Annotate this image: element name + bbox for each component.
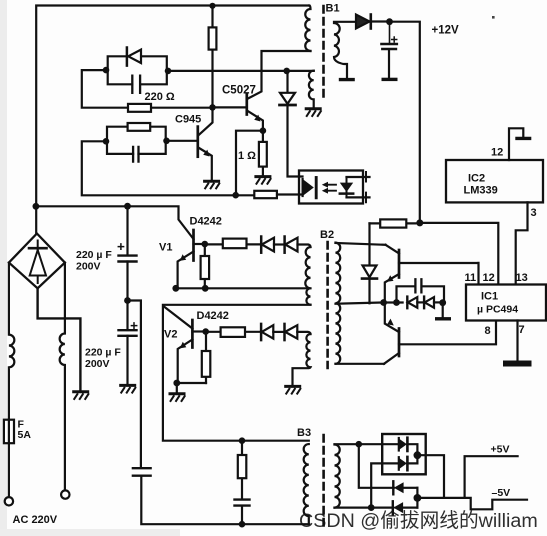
transformer B2 right winding (x=335.5 y242.6-364) <box>336 243 341 364</box>
node: B3 feed / RC tap <box>239 437 246 444</box>
node: clamp network right <box>439 299 446 306</box>
wire + inductor L1 on AC line 1 <box>9 263 14 420</box>
transistor V1: emitter with arrow <box>178 252 194 289</box>
diode D-o2 (+5V, points right) <box>398 457 400 470</box>
diode D-v1b (points left) <box>283 237 286 253</box>
svg-text:B2: B2 <box>320 229 334 241</box>
wire: startup resistor drop line <box>211 6 213 108</box>
wire: +12V rail across and down <box>390 22 420 223</box>
svg-text:200V: 200V <box>76 261 101 273</box>
transistor V1: base lead <box>194 243 205 245</box>
diode D-c1 (points left) <box>406 297 408 309</box>
transistor V1: base bar <box>192 230 195 261</box>
svg-text:220 µ F: 220 µ F <box>76 249 112 261</box>
diode D-osc1 in upper loop (points left) <box>126 48 129 66</box>
ground: bridge negative <box>72 392 89 400</box>
resistor V1 base-emitter <box>204 244 206 288</box>
diode D-v2b (points left) <box>283 324 286 340</box>
stray mark top right <box>492 16 495 19</box>
paper edge tint bottom-left <box>0 529 180 536</box>
wire: B3 secondary bottom lead <box>335 507 394 509</box>
capacitor 220uF-2 (electrolytic) <box>126 301 128 331</box>
diode D-rect12 (to +12V, points right) <box>356 15 370 29</box>
transformer B1 core (dashed) <box>322 6 325 97</box>
capacitor C-osc2 in lower loop <box>133 147 138 162</box>
node: left rail / B+ wire junction <box>33 203 40 210</box>
wire: +12V to IC1 pin 12 <box>420 223 499 284</box>
bridge inner diode symbol <box>37 241 39 284</box>
wire + inductor L2 on AC line 2 <box>60 263 65 491</box>
diode D-o4 (-5V, points left) <box>392 501 394 514</box>
diode D-opto-feed (points down) <box>286 71 288 93</box>
transformer B2 upper-left winding (x=310.5 y247-304.7) <box>305 247 310 305</box>
transistor Q2: emitter with arrow up to node <box>385 302 399 332</box>
transistor C5027: collector to B1 primary bottom <box>247 51 311 99</box>
lower RC loop frame <box>107 127 166 154</box>
transistor V2: collector diagonal <box>164 306 193 328</box>
resistor R-12V feed <box>370 222 420 224</box>
transformer B2 core (dashed) <box>326 242 329 368</box>
wire: Q2 base to IC1 pin 8 <box>399 321 496 345</box>
diode D-o1 (+5V, points right) <box>398 438 400 451</box>
node: between filter caps <box>124 297 131 304</box>
node: V1 base node <box>202 241 209 248</box>
optocoupler U-opto box <box>299 171 363 204</box>
wire: B2 right center tap <box>336 303 384 304</box>
rectifier box <box>382 434 426 474</box>
node: C5027 emitter node <box>260 127 267 134</box>
node: +12V rectifier output <box>386 18 393 25</box>
supply bar for IC2 pin 12 <box>515 137 531 139</box>
svg-text:C945: C945 <box>175 114 201 126</box>
wire: +5V rail <box>465 456 518 498</box>
wire: C5027 base <box>213 106 247 108</box>
svg-text:V2: V2 <box>164 329 177 341</box>
svg-text:IC1: IC1 <box>481 291 498 303</box>
wire: B+ branch to bottom area <box>128 301 141 468</box>
resistor V2 base-emitter <box>205 332 207 383</box>
wire: B2 right bottom lead to Q2 collector <box>336 363 385 365</box>
svg-text:AC 220V: AC 220V <box>13 514 58 526</box>
wire: +5V output through box <box>417 455 444 498</box>
svg-text:12: 12 <box>483 272 495 284</box>
IC2 pin 12 to supply bar <box>509 128 523 160</box>
ground: B1 feedback winding (bar) <box>339 79 355 81</box>
transformer B3 left winding (x=308.8 y446-518) <box>304 444 309 524</box>
resistor 220ohm (horizontal) <box>151 107 213 109</box>
wire: top tap down to D3 <box>359 444 394 488</box>
ground: V2 emitter <box>169 394 186 402</box>
transistor C945: base bar <box>196 127 199 157</box>
wire: Q1 base to IC1 pin 11 <box>399 263 479 285</box>
optocoupler output element (left, filled) <box>303 179 314 196</box>
optocoupler right leads with ticks <box>347 177 370 197</box>
capacitor C-12V filter (electrolytic) <box>389 22 391 44</box>
diode D-o3 (-5V, points left) <box>392 481 394 494</box>
transistor C945: emitter with arrow to ground <box>198 148 212 181</box>
svg-text:V1: V1 <box>159 242 172 254</box>
wire: V1 base chain <box>205 243 261 245</box>
transistor V2: emitter with arrow <box>178 340 193 384</box>
wire: lower RC network left lead + bracket down to feedback bottom wire <box>82 141 255 195</box>
ground: filter caps <box>119 385 136 393</box>
optocoupler light arrows <box>326 185 336 191</box>
transformer B1 feedback winding (right, x=334 y23-57) <box>334 22 356 78</box>
resistor on feedback bottom wire (to optocoupler) <box>277 193 303 195</box>
svg-text:LM339: LM339 <box>464 185 498 197</box>
resistor R-snub (vertical at B3) <box>241 441 243 500</box>
wire: feedback line y=71 from RC network to B1 lower winding <box>168 70 314 72</box>
node: left of lower RC network <box>103 138 110 145</box>
transistor C5027: emitter with arrow <box>247 111 263 131</box>
wire: V2 base chain <box>206 331 261 333</box>
wire: B3 secondary top lead <box>335 443 399 445</box>
node: V1 emitter rail <box>172 285 179 292</box>
diode D-c2 (points left) <box>423 297 425 309</box>
bridge rectifier diamond <box>9 234 65 289</box>
diode D-v1a (points left) <box>260 237 263 253</box>
wire: left rail to bridge top <box>35 206 37 233</box>
node: main oscillator junction (base of C5027) <box>209 104 216 111</box>
wire: down to optocoupler LED <box>288 105 303 177</box>
node: secondary bottom tap <box>368 504 375 511</box>
svg-text:+5V: +5V <box>491 444 510 456</box>
diode D-mid (points down) <box>368 223 370 265</box>
capacitor C-bottom (near bottom rail) <box>133 468 151 476</box>
node: V1 resistor bottom <box>202 285 209 292</box>
node: clamp network left <box>393 299 400 306</box>
ground: C945 emitter <box>203 181 220 189</box>
AC terminal 2 <box>61 490 69 498</box>
node: feedback line to B1 lower winding / opto branch <box>283 68 290 75</box>
transformer B1 lower-left winding (x=313.7 y70.6-99.4) <box>309 71 314 108</box>
wire: upper RC network left lead + bracket to 220ohm line <box>82 70 128 108</box>
resistor R-osc2 in lower loop <box>128 123 151 131</box>
node: V2 emitter node <box>173 380 180 387</box>
IC2 LM339 box <box>446 160 543 202</box>
transformer B2 lower-left winding (x=310.5 y334-367) <box>293 334 311 385</box>
svg-text:µ PC494: µ PC494 <box>477 304 518 316</box>
transformer B3 core (dashed) <box>322 435 325 528</box>
node: +12V distribution <box>416 219 423 226</box>
transistor V2: base lead <box>192 330 205 332</box>
svg-text:7: 7 <box>519 324 525 336</box>
IC1 uPC494 box <box>466 285 546 321</box>
capacitor 220uF-1 (electrolytic) <box>126 206 128 255</box>
svg-text:IC2: IC2 <box>468 173 485 185</box>
wire: emitter node to feedback bottom wire <box>236 131 263 196</box>
ground: B1 lower winding <box>305 109 322 117</box>
wire: bottom tap up to D2 <box>371 463 399 507</box>
transistor Q1: base bar <box>398 250 401 278</box>
wire: V2 collector rail to B2 and down to B3 <box>163 305 311 441</box>
wire: -5V output column <box>416 488 418 508</box>
svg-text:C5027: C5027 <box>222 85 256 97</box>
wire: bridge negative to ground <box>38 288 81 390</box>
capacitor C-snub <box>235 500 250 506</box>
transistor Q2: collector to B2 bottom <box>384 353 399 364</box>
svg-text:220 µ F: 220 µ F <box>85 347 121 359</box>
IC1 pin 7 to ground <box>516 321 518 361</box>
paper edge tint left <box>0 0 7 536</box>
wire: IC2 pin 3 to IC1 pin 13 <box>516 202 528 284</box>
transistor V2: base bar <box>191 320 194 348</box>
transistor Q1: collector diagonal <box>386 245 400 254</box>
svg-text:200V: 200V <box>85 358 110 370</box>
wire: C945 base wire <box>167 140 198 142</box>
resistor 1ohm <box>262 131 264 176</box>
node: right of lower RC network <box>163 138 170 145</box>
wire: B+ wire y=206 to V1 collector <box>36 206 194 239</box>
resistor V1 drive chain <box>223 239 247 249</box>
fuse F 5A <box>8 420 10 497</box>
svg-text:220 Ω: 220 Ω <box>145 91 175 103</box>
svg-text:D4242: D4242 <box>190 216 222 228</box>
AC terminal 1 <box>5 497 13 505</box>
wire: top rail from left rail corner to B1 primary <box>36 6 309 207</box>
wire: -5V rail staircase <box>417 498 527 509</box>
svg-text:8: 8 <box>485 325 491 337</box>
transistor C5027: base bar <box>245 94 248 115</box>
svg-text:–5V: –5V <box>492 487 511 499</box>
svg-text:B3: B3 <box>297 427 311 439</box>
ground: +12V filter cap (bar) <box>382 78 398 80</box>
resistor R-startup (vertical, top) <box>209 27 217 49</box>
diode D-v2a (points left) <box>260 324 263 340</box>
svg-text:5A: 5A <box>18 429 32 441</box>
ground: B2 lower-left winding <box>284 386 301 394</box>
wire: V1 emitter wire to B2 <box>176 287 311 289</box>
node: -5V output <box>414 494 422 502</box>
svg-text:1 Ω: 1 Ω <box>238 150 256 162</box>
transistor Q1: emitter with arrow down to node <box>385 274 399 302</box>
svg-text:3: 3 <box>531 207 537 219</box>
svg-text:13: 13 <box>516 272 528 284</box>
svg-text:CSDN @偷拔网线的william: CSDN @偷拔网线的william <box>299 510 538 532</box>
wire: B2 right top lead <box>336 243 386 245</box>
svg-text:11: 11 <box>465 272 477 284</box>
wire: V2 emitter to resistor bottom <box>177 383 206 393</box>
transistor C945: collector from junction <box>198 107 212 135</box>
ground: 1 ohm resistor <box>254 177 271 185</box>
ground: clamp network (bar) <box>435 318 451 320</box>
capacitor C-clamp <box>397 286 416 302</box>
node: V2 base node <box>202 328 209 335</box>
node: on feedback bottom wire <box>232 192 239 199</box>
svg-text:D4242: D4242 <box>197 310 229 322</box>
transformer B1 primary winding (left, x=310.5 y9-51) <box>305 6 310 52</box>
wire: to bottom rail <box>141 476 308 525</box>
svg-text:12: 12 <box>491 147 503 159</box>
optocoupler LED (right) <box>346 177 348 197</box>
svg-text:+12V: +12V <box>432 25 460 37</box>
node: right of upper RC network <box>165 68 172 75</box>
node: secondary top tap <box>356 441 363 448</box>
resistor V2 drive chain <box>221 327 245 337</box>
node: bottom rail / RC tap <box>239 521 246 528</box>
node: top rail / startup resistor junction <box>209 3 215 9</box>
capacitor C-osc1 in upper loop <box>132 76 140 93</box>
node: filter caps tap <box>124 203 131 210</box>
node: +5V rectifier output <box>414 451 422 459</box>
svg-text:B1: B1 <box>326 3 340 15</box>
upper RC loop frame <box>108 56 167 84</box>
node: push-pull emitter junction <box>380 299 387 306</box>
node: left of upper RC network <box>103 67 110 74</box>
transistor Q2: base bar <box>398 329 401 357</box>
transformer B3 right winding (x=334.5 y445.6-508.4) <box>335 445 340 508</box>
